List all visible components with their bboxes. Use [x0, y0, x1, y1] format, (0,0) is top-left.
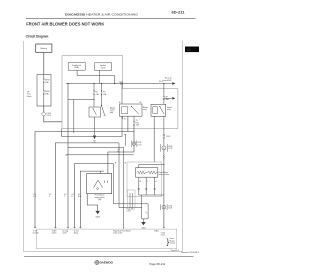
svg-text:(6A): (6A) — [110, 111, 114, 114]
svg-text:0.5 B: 0.5 B — [168, 208, 173, 210]
svg-text:0.5 B: 0.5 B — [127, 211, 132, 213]
svg-text:DAEWOO: DAEWOO — [100, 261, 114, 265]
svg-text:0.5: 0.5 — [34, 194, 36, 196]
svg-text:Hot at all: Hot at all — [165, 77, 172, 80]
svg-text:motor switch: motor switch — [113, 232, 123, 235]
svg-text:87: 87 — [124, 118, 126, 120]
svg-text:L: L — [49, 196, 50, 198]
svg-text:B: B — [115, 163, 117, 165]
svg-text:6D-211: 6D-211 — [172, 11, 185, 15]
svg-text:Page 6D-211: Page 6D-211 — [150, 262, 166, 266]
svg-text:6D: 6D — [187, 48, 192, 52]
svg-text:C102: C102 — [166, 136, 170, 138]
svg-text:resistor: resistor — [170, 242, 176, 245]
svg-text:0.5: 0.5 — [49, 194, 51, 196]
svg-text:G303: G303 — [95, 217, 99, 219]
svg-text:center: center — [62, 232, 67, 235]
svg-text:0.5 B: 0.5 B — [161, 235, 166, 237]
svg-text:0.5 B: 0.5 B — [47, 115, 52, 117]
svg-text:15A: 15A — [136, 124, 140, 127]
svg-text:block: block — [27, 96, 31, 98]
svg-text:switch: switch — [52, 232, 57, 235]
svg-text:relay: relay — [143, 108, 147, 111]
svg-text:FRONT AIR BLOWER DOES NOT WORK: FRONT AIR BLOWER DOES NOT WORK — [26, 22, 104, 28]
svg-text:switch: switch — [101, 66, 106, 69]
svg-text:30: 30 — [119, 102, 121, 104]
svg-text:B: B — [72, 196, 73, 198]
svg-text:0.3: 0.3 — [118, 149, 120, 151]
svg-text:L.B: L.B — [34, 196, 36, 198]
svg-text:Daewoo V-100 BL2: Daewoo V-100 BL2 — [181, 252, 199, 254]
svg-text:0.5 G: 0.5 G — [137, 144, 142, 146]
svg-text:0.5: 0.5 — [72, 194, 74, 196]
svg-text:25A: 25A — [96, 93, 100, 96]
svg-text:86: 86 — [140, 102, 142, 104]
svg-text:Page 6D-2: Page 6D-2 — [171, 250, 179, 252]
svg-text:defog: defog — [74, 233, 78, 235]
svg-text:Battery: Battery — [41, 47, 47, 50]
svg-text:DIAGNOSIS HEATER & AIR CONDITI: DIAGNOSIS HEATER & AIR CONDITIONING — [65, 12, 139, 16]
svg-text:(7A): (7A) — [98, 198, 102, 201]
svg-text:(30A): (30A) — [74, 66, 79, 69]
svg-text:Y: Y — [64, 196, 66, 198]
svg-text:0.5: 0.5 — [78, 194, 80, 196]
svg-text:L: L — [147, 181, 148, 183]
svg-text:B.W: B.W — [78, 196, 82, 198]
svg-text:relay: relay — [167, 108, 171, 111]
svg-text:To A/C: To A/C — [154, 230, 160, 233]
svg-text:H: H — [155, 181, 157, 183]
svg-text:fuse blk: fuse blk — [33, 233, 39, 235]
svg-text:C101: C101 — [119, 81, 123, 83]
svg-text:0.5 B: 0.5 B — [168, 148, 173, 150]
svg-text:M: M — [140, 181, 142, 183]
svg-text:motor resistor: motor resistor — [159, 173, 170, 176]
svg-text:B: B — [125, 163, 127, 165]
svg-text:25A: 25A — [103, 93, 107, 96]
svg-text:0.5: 0.5 — [64, 194, 66, 196]
svg-text:Circuit Diagram: Circuit Diagram — [26, 35, 49, 39]
